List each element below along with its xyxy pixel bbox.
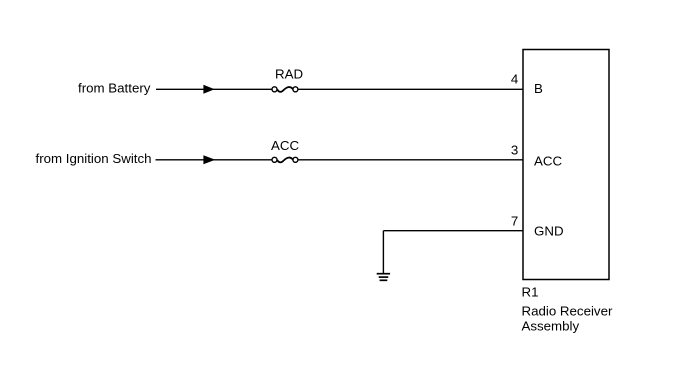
svg-text:ACC: ACC bbox=[534, 154, 562, 169]
svg-text:Radio Receiver: Radio Receiver bbox=[522, 303, 613, 318]
svg-text:4: 4 bbox=[511, 71, 518, 86]
svg-text:B: B bbox=[534, 81, 543, 96]
svg-text:7: 7 bbox=[511, 214, 518, 229]
svg-text:ACC: ACC bbox=[271, 138, 299, 153]
svg-text:from Battery: from Battery bbox=[78, 80, 151, 95]
svg-text:from Ignition Switch: from Ignition Switch bbox=[36, 151, 152, 166]
svg-text:3: 3 bbox=[511, 143, 518, 158]
svg-text:RAD: RAD bbox=[275, 67, 303, 82]
svg-text:R1: R1 bbox=[522, 285, 539, 300]
svg-text:GND: GND bbox=[534, 223, 564, 238]
svg-text:Assembly: Assembly bbox=[522, 318, 580, 333]
